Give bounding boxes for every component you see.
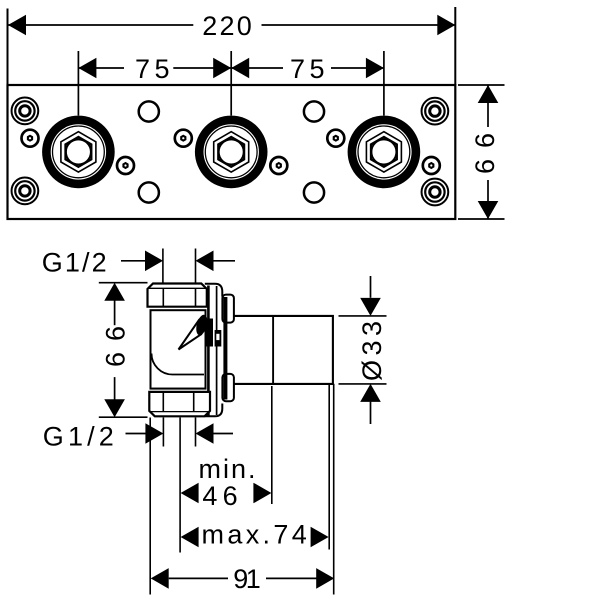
dim 66tv bottom extension line xyxy=(458,218,505,220)
wall mounting plate (top view) xyxy=(8,85,456,219)
G1/2 bottom right extension line xyxy=(195,418,197,447)
dim33 bottom shaft xyxy=(370,402,372,424)
dim33 top extension line xyxy=(339,315,387,317)
plain hole 2 xyxy=(304,101,324,121)
dim 66tv line lower segment xyxy=(487,180,489,219)
dim 91 right arrow xyxy=(316,568,334,589)
screw boss 5 xyxy=(327,130,344,147)
svg-text:max.74: max.74 xyxy=(202,520,307,550)
dim 66sv top arrow xyxy=(104,283,125,301)
G1/2 bottom left arrow xyxy=(145,423,163,444)
dim33 bottom extension line xyxy=(339,383,387,385)
triple-ring grommet 2 xyxy=(12,178,39,205)
valve 2 (hex socket connection) xyxy=(195,116,268,189)
dim 75a line right segment xyxy=(173,67,231,69)
cartridge detail right xyxy=(215,330,222,347)
flow arrow shaft upper xyxy=(179,319,200,349)
G1/2 bottom leader line xyxy=(126,433,147,435)
dim 66sv top extension line xyxy=(99,282,148,284)
dim 66sv line lower segment xyxy=(114,377,116,399)
valve 1 (hex socket connection) xyxy=(42,116,115,189)
screw boss 3 xyxy=(175,130,192,147)
G1/2 bottom right arrow xyxy=(196,423,214,444)
dim 91 line left segment xyxy=(169,577,228,579)
ext line wall side (91 left) xyxy=(149,418,151,595)
dim max74 left arrow xyxy=(181,527,199,548)
svg-text:G1/2: G1/2 xyxy=(42,248,107,278)
triple-ring grommet 3 xyxy=(422,98,449,125)
screw boss 2 xyxy=(117,157,134,174)
svg-text:46: 46 xyxy=(202,481,237,511)
dim 220 right extension line xyxy=(454,7,456,85)
svg-text:220: 220 xyxy=(202,11,252,41)
G1/2 top right arrow xyxy=(196,251,214,272)
dim33 top shaft xyxy=(370,276,372,298)
dim min46 right arrow xyxy=(253,483,271,504)
valve1 extension line xyxy=(77,51,79,116)
dim 75a right arrow xyxy=(213,58,231,79)
top tab xyxy=(222,295,234,323)
body bottom shoulder line xyxy=(153,388,205,390)
cap inner step line xyxy=(272,316,274,384)
ext line cap end (91 right) xyxy=(333,384,335,595)
valve body outline xyxy=(151,310,206,388)
G1/2 top left arrow xyxy=(145,251,163,272)
svg-text:Ø33: Ø33 xyxy=(357,321,387,381)
waterway arc xyxy=(152,354,205,375)
top thread nut xyxy=(148,284,207,307)
dim 75b right arrow xyxy=(366,58,384,79)
dim max74 right arrow xyxy=(311,527,329,548)
G1/2 top left extension line xyxy=(162,249,164,284)
dim 66sv bottom arrow xyxy=(104,399,125,417)
ext line max74 right xyxy=(328,385,330,550)
protection cap xyxy=(235,316,333,384)
svg-text:66: 66 xyxy=(470,133,500,174)
dim33 bottom arrow xyxy=(360,384,381,402)
G1/2 bottom right tail line xyxy=(214,433,234,435)
ext line pipe axis (min/max left) xyxy=(179,418,181,553)
svg-text:91: 91 xyxy=(233,564,261,594)
dim 91 left arrow xyxy=(151,568,169,589)
G1/2 top right tail line xyxy=(214,260,236,262)
dim 66sv bottom extension line xyxy=(99,416,148,418)
plain hole 4 xyxy=(304,182,324,202)
dim 220 right arrow xyxy=(437,15,455,36)
valve3 extension line xyxy=(383,51,385,116)
G1/2 top right extension line xyxy=(195,249,197,284)
screw boss 6 xyxy=(423,157,440,174)
dim 66tv top arrow xyxy=(478,85,499,103)
cartridge detail left xyxy=(206,319,213,347)
dim 66tv line upper segment xyxy=(487,85,489,127)
ext line min46 right xyxy=(271,386,273,504)
svg-text:66: 66 xyxy=(101,326,131,367)
screw boss 1 xyxy=(22,130,39,147)
svg-text:75: 75 xyxy=(135,54,170,84)
svg-text:min.: min. xyxy=(199,454,256,484)
valve 3 (hex socket connection) xyxy=(348,116,421,189)
G1/2 top leader line xyxy=(121,260,147,262)
dim 75a left arrow xyxy=(78,58,96,79)
triple-ring grommet 4 xyxy=(422,179,449,206)
dim 220 line left segment xyxy=(8,24,193,26)
dim 66tv bottom arrow xyxy=(478,201,499,219)
flow arrow shaft lower xyxy=(179,334,202,350)
mounting flange xyxy=(205,284,226,417)
dim 75b line right segment xyxy=(331,67,384,69)
valve2 extension line xyxy=(230,51,232,116)
flow arrow head xyxy=(194,314,209,337)
dim 66tv top extension line xyxy=(458,84,505,86)
bottom thread nut xyxy=(149,392,210,416)
plain hole 3 xyxy=(139,182,159,202)
dim 66sv line upper segment xyxy=(114,300,116,325)
dim min46 left arrow xyxy=(181,483,199,504)
dim 220 left extension line xyxy=(7,9,9,86)
dim 75b line left segment xyxy=(231,67,283,69)
svg-text:G1/2: G1/2 xyxy=(43,422,114,452)
svg-text:75: 75 xyxy=(290,54,325,84)
bottom tab xyxy=(222,374,234,401)
dim 75a line left segment xyxy=(78,67,124,69)
dim 220 line right segment xyxy=(262,24,456,26)
cartridge white slit xyxy=(216,334,219,340)
dim33 top arrow xyxy=(360,298,381,316)
dim 220 left arrow xyxy=(8,15,26,36)
triple-ring grommet 1 xyxy=(12,98,39,125)
dim 75b left arrow xyxy=(231,58,249,79)
plain hole 1 xyxy=(139,101,159,121)
G1/2 bottom left extension line xyxy=(162,418,164,447)
dim 91 line right segment xyxy=(266,577,317,579)
screw boss 4 xyxy=(270,157,287,174)
